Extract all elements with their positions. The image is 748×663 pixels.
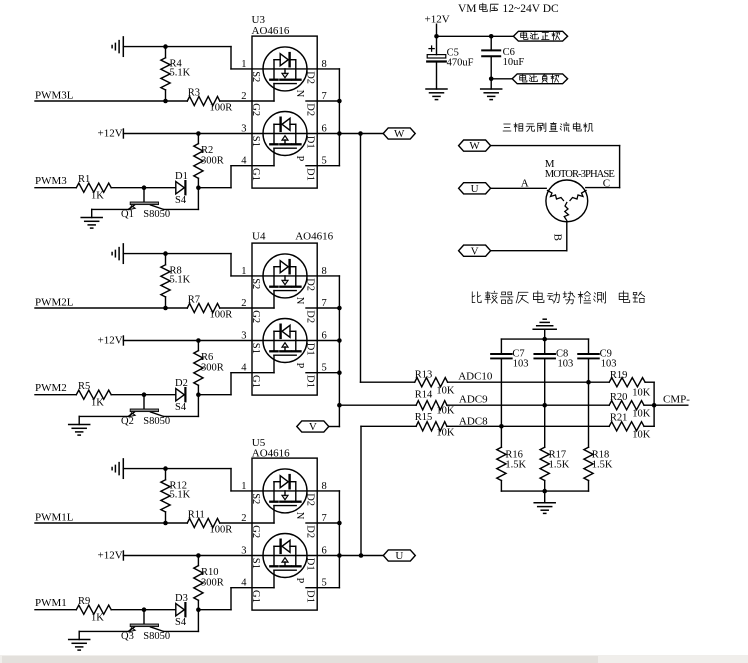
- wire drain tie U4 / V bus: [338, 276, 340, 427]
- svg-text:W: W: [469, 140, 480, 152]
- wire collector: [164, 188, 199, 210]
- wire pin2 row (gate): [252, 506, 274, 523]
- label R12 value: [170, 481, 191, 501]
- wire drain tie U5: [338, 491, 340, 588]
- svg-text:D2: D2: [304, 278, 315, 291]
- ground (top, inverted): [533, 319, 556, 339]
- node U flag (motor): [459, 183, 491, 195]
- svg-text:300R: 300R: [201, 363, 224, 374]
- pin numbers left: [241, 59, 247, 167]
- wire node ADC9: [447, 404, 609, 406]
- svg-text:D1: D1: [304, 590, 315, 603]
- svg-text:G2: G2: [250, 525, 261, 538]
- wire to V flag: [329, 426, 339, 428]
- wire pin1 row: [252, 275, 317, 277]
- resistor R8: [161, 254, 170, 308]
- svg-text:D2: D2: [304, 525, 315, 538]
- ground (rotated) block 2: [112, 244, 123, 263]
- label R13 10K: [415, 370, 455, 397]
- wire to battery negative: [491, 78, 512, 80]
- svg-text:3: 3: [241, 546, 246, 557]
- svg-text:Q3: Q3: [121, 631, 134, 642]
- junction: [196, 553, 201, 558]
- wire PWM2L: [35, 307, 187, 309]
- junction: [196, 392, 201, 397]
- wire pin7 stub: [306, 522, 317, 524]
- junction: [163, 44, 168, 49]
- capacitor C5 470uF: [427, 46, 446, 89]
- svg-text:C: C: [603, 178, 610, 190]
- wire W bus to R13: [361, 381, 415, 383]
- label R20 10K: [610, 392, 651, 420]
- svg-text:3: 3: [241, 124, 246, 135]
- pin numbers left: [241, 266, 247, 374]
- resistor R9: [76, 605, 176, 614]
- wire pin6 out stub: [317, 555, 339, 557]
- resistor R19 10K: [609, 378, 654, 387]
- svg-text:1.5K: 1.5K: [592, 460, 613, 471]
- transistor P-MOSFET of U4: [263, 319, 307, 363]
- wire collector: [164, 395, 199, 417]
- svg-text:S1: S1: [250, 558, 261, 569]
- svg-text:D2: D2: [175, 378, 188, 389]
- wire drain tie U3: [338, 69, 340, 166]
- svg-text:S1: S1: [250, 343, 261, 354]
- wire collector: [164, 610, 199, 632]
- svg-text:+12V: +12V: [98, 334, 123, 346]
- wire pin7 out stub: [317, 522, 339, 524]
- wire +12V to pin 3: [123, 551, 252, 560]
- pin numbers right: [322, 266, 327, 374]
- label Q3 S8050: [121, 631, 170, 642]
- op-amp U3 AO4616 (dual MOSFET): [252, 36, 317, 188]
- pin names D2 D2 D1 D1: [304, 71, 315, 181]
- label D2 value: [175, 378, 188, 413]
- wire CMP- rail: [654, 382, 688, 426]
- label R17 1.5K: [549, 450, 570, 471]
- wire PWM1L: [35, 522, 187, 524]
- svg-text:ADC8: ADC8: [459, 415, 488, 427]
- wire pin3 row: [252, 340, 317, 342]
- svg-text:PWM3: PWM3: [35, 175, 67, 187]
- svg-text:U: U: [471, 183, 479, 195]
- ground (bottom): [534, 491, 555, 513]
- svg-text:100R: 100R: [210, 310, 233, 321]
- junction: [434, 34, 439, 39]
- svg-text:D3: D3: [175, 593, 188, 604]
- svg-text:N: N: [294, 512, 305, 520]
- svg-text:D1: D1: [304, 375, 315, 388]
- wire pin5 out stub: [317, 372, 339, 374]
- wire pin7 stub: [306, 100, 317, 102]
- label R19 10K: [610, 370, 651, 399]
- svg-text:5.1K: 5.1K: [170, 489, 191, 500]
- svg-text:1K: 1K: [91, 612, 104, 623]
- wire PWM1: [35, 609, 76, 611]
- svg-text:A: A: [521, 178, 529, 190]
- junction: [337, 370, 342, 375]
- label R21 10K: [610, 413, 651, 441]
- svg-text:G2: G2: [250, 103, 261, 116]
- op-amp U5 AO4616 (dual MOSFET): [252, 458, 317, 610]
- wire V bus to R14: [339, 404, 416, 406]
- junction: [489, 34, 494, 39]
- wire pin8 stub: [317, 68, 339, 70]
- svg-text:S1: S1: [250, 136, 261, 147]
- wire pin1 row: [252, 490, 317, 492]
- title 3-phase brushless DC motor: [503, 122, 593, 131]
- svg-text:P: P: [294, 156, 305, 162]
- svg-text:AO4616: AO4616: [252, 25, 290, 37]
- wire pin7 out stub: [317, 100, 339, 102]
- resistor R14 10K: [416, 401, 447, 410]
- label D3 value: [175, 593, 188, 628]
- label R2 value: [201, 145, 224, 167]
- label U5 AO4616: [252, 437, 290, 459]
- wire pin5 out stub: [317, 587, 339, 589]
- svg-text:103: 103: [513, 359, 529, 370]
- svg-text:P: P: [294, 363, 305, 369]
- junction: [142, 607, 147, 612]
- pin names S2 G2 S1 G1: [250, 71, 261, 181]
- wire pin4 row (gate): [252, 148, 274, 166]
- svg-text:G1: G1: [250, 590, 261, 603]
- diode D1 S4: [176, 181, 186, 194]
- svg-text:G1: G1: [250, 375, 261, 388]
- svg-text:D1: D1: [304, 558, 315, 571]
- wire top rail: [501, 338, 588, 340]
- junction: [542, 489, 547, 494]
- wire pin1 row: [252, 68, 317, 70]
- svg-text:R10: R10: [201, 567, 219, 578]
- title VM voltage 12~24V DC: [458, 3, 559, 15]
- pin names S2 G2 S1 G1: [250, 493, 261, 603]
- svg-text:1K: 1K: [91, 397, 104, 408]
- svg-text:Q1: Q1: [121, 209, 134, 220]
- junction: [542, 337, 547, 342]
- capacitor C6 10uF: [482, 36, 500, 89]
- label R9 value: [78, 596, 104, 623]
- junction: [337, 521, 342, 526]
- junction: [652, 403, 657, 408]
- ground (C5): [426, 89, 447, 100]
- svg-text:1K: 1K: [91, 190, 104, 201]
- junction: [196, 607, 201, 612]
- svg-text:R11: R11: [188, 510, 205, 521]
- wire pin7 stub: [306, 307, 317, 309]
- svg-text:PWM2: PWM2: [35, 382, 67, 394]
- resistor R17 1.5K: [540, 447, 549, 491]
- node U flag: [383, 550, 415, 562]
- label R10 value: [201, 567, 224, 589]
- svg-text:S8050: S8050: [143, 631, 170, 642]
- svg-text:1: 1: [241, 59, 246, 70]
- ground (rotated) block 1: [112, 459, 123, 478]
- svg-text:10K: 10K: [632, 388, 651, 399]
- node V flag: [297, 421, 329, 433]
- svg-text:S2: S2: [250, 71, 261, 82]
- pin numbers right: [322, 59, 327, 167]
- svg-text:G2: G2: [250, 310, 261, 323]
- svg-text:S4: S4: [175, 617, 187, 628]
- svg-text:100R: 100R: [210, 525, 233, 536]
- wire +12V to pin 3: [123, 336, 252, 345]
- resistor R20 10K: [609, 401, 654, 410]
- wire W output: [339, 133, 383, 135]
- label C8 103: [556, 348, 573, 369]
- junction: [142, 392, 147, 397]
- svg-text:PWM2L: PWM2L: [35, 296, 74, 308]
- label R8 value: [170, 266, 191, 286]
- junction: [163, 99, 168, 104]
- ground block 1: [69, 640, 90, 651]
- svg-text:G1: G1: [250, 168, 261, 181]
- svg-text:10K: 10K: [436, 386, 455, 397]
- pin names D2 D2 D1 D1: [304, 278, 315, 388]
- resistor R15 10K: [416, 422, 447, 431]
- svg-text:AO4616: AO4616: [295, 231, 333, 243]
- wire gnd to pin 1: [123, 254, 252, 276]
- resistor R16 1.5K: [497, 447, 506, 491]
- label D1 value: [175, 171, 188, 206]
- transistor N-MOSFET of U3: [263, 47, 307, 91]
- label C9 103: [600, 348, 617, 369]
- svg-text:ADC9: ADC9: [459, 394, 488, 406]
- labels N P: [294, 90, 305, 162]
- svg-text:S2: S2: [250, 278, 261, 289]
- svg-text:5.1K: 5.1K: [170, 67, 191, 78]
- svg-text:R7: R7: [188, 295, 200, 306]
- junction: [163, 466, 168, 471]
- label R11 value: [188, 510, 233, 536]
- diode D2 S4: [176, 388, 186, 401]
- svg-text:2: 2: [241, 513, 246, 524]
- label U3 AO4616: [252, 14, 290, 37]
- scrollbar thumb: [2, 656, 598, 663]
- svg-text:R14: R14: [415, 389, 433, 400]
- junction: [337, 99, 342, 104]
- junction: [163, 251, 168, 256]
- pin numbers right: [322, 481, 327, 589]
- junction node W: [358, 131, 363, 136]
- node V flag (motor): [459, 245, 491, 257]
- svg-text:P: P: [294, 578, 305, 584]
- wire U bus to R15: [361, 425, 416, 427]
- svg-text:10uF: 10uF: [503, 57, 525, 68]
- svg-text:U4: U4: [252, 231, 266, 243]
- svg-text:1.5K: 1.5K: [549, 460, 570, 471]
- svg-text:PWM1: PWM1: [35, 597, 67, 609]
- wire W to motor C: [491, 146, 620, 188]
- junction: [499, 424, 504, 429]
- svg-text:R3: R3: [188, 88, 200, 99]
- svg-text:S4: S4: [175, 195, 187, 206]
- wire emitter to ground: [79, 631, 128, 639]
- ground (rotated) block 3: [112, 37, 123, 56]
- svg-text:R13: R13: [415, 370, 433, 381]
- junction: [586, 380, 591, 385]
- junction node U: [359, 553, 364, 558]
- svg-text:10K: 10K: [632, 430, 651, 441]
- svg-text:3: 3: [241, 331, 246, 342]
- svg-text:S2: S2: [250, 493, 261, 504]
- wire PWM3L: [35, 100, 187, 102]
- svg-text:2: 2: [241, 91, 246, 102]
- svg-text:R5: R5: [78, 381, 90, 392]
- svg-text:470uF: 470uF: [447, 57, 474, 68]
- junction: [337, 131, 342, 136]
- wire node ADC10: [448, 381, 610, 383]
- resistor R7: [187, 303, 252, 312]
- wire pin8 stub: [317, 490, 339, 492]
- resistor R13 10K: [415, 378, 448, 387]
- wire pin4 row (gate): [252, 355, 274, 373]
- wire gnd to pin 1: [123, 47, 252, 69]
- title comparator back-EMF detection circuit: [472, 291, 644, 304]
- svg-text:R9: R9: [78, 596, 90, 607]
- svg-text:10K: 10K: [436, 406, 455, 417]
- svg-text:1.5K: 1.5K: [505, 460, 526, 471]
- junction: [196, 131, 201, 136]
- resistor R4: [161, 47, 170, 101]
- svg-text:103: 103: [601, 359, 617, 370]
- labels N P: [294, 512, 305, 584]
- transistor P-MOSFET of U5: [263, 534, 307, 578]
- resistor R10: [194, 556, 203, 610]
- junction: [337, 403, 342, 408]
- svg-text:N: N: [294, 297, 305, 305]
- labels N P: [294, 297, 305, 369]
- svg-text:+12V: +12V: [98, 549, 123, 561]
- svg-text:VM: VM: [458, 3, 477, 15]
- svg-text:1: 1: [241, 481, 246, 492]
- svg-text:R21: R21: [610, 413, 628, 424]
- svg-text:W: W: [394, 128, 405, 140]
- wire motor B to V: [491, 222, 567, 251]
- svg-text:U: U: [395, 550, 403, 562]
- wire U bus up: [360, 426, 362, 555]
- svg-text:+12V: +12V: [98, 127, 123, 139]
- junction: [337, 306, 342, 311]
- svg-text:AO4616: AO4616: [252, 447, 290, 459]
- svg-text:S4: S4: [175, 402, 187, 413]
- transistor Q1 S8050: [128, 188, 163, 210]
- svg-text:D1: D1: [304, 136, 315, 149]
- transistor P-MOSFET of U3: [263, 112, 307, 156]
- label R16 1.5K: [505, 450, 526, 471]
- svg-text:B: B: [551, 234, 563, 241]
- wire pin4 row (gate): [252, 570, 274, 588]
- resistor R11: [187, 518, 252, 527]
- svg-text:ADC10: ADC10: [458, 371, 493, 383]
- resistor R3: [187, 96, 252, 105]
- svg-text:D1: D1: [304, 168, 315, 181]
- wire to pin 4: [198, 588, 252, 610]
- wire pin3 row: [252, 555, 317, 557]
- junction: [489, 77, 494, 82]
- wire to pin 4: [198, 166, 252, 188]
- svg-text:10K: 10K: [436, 427, 455, 438]
- wire positive rail: [437, 35, 514, 37]
- pin numbers left: [241, 481, 247, 589]
- wire pin7 out stub: [317, 307, 339, 309]
- svg-text:4: 4: [241, 156, 247, 167]
- motor M (3-phase): [546, 180, 588, 222]
- svg-text:S8050: S8050: [143, 416, 170, 427]
- pin names D2 D2 D1 D1: [304, 493, 315, 603]
- svg-text:D2: D2: [304, 493, 315, 506]
- transistor Q2 S8050: [128, 395, 163, 417]
- wire W bus down: [360, 134, 362, 383]
- label R14 10K: [415, 389, 455, 416]
- wire U to motor A: [491, 187, 547, 189]
- svg-text:D2: D2: [304, 310, 315, 323]
- wire bottom rail: [501, 490, 588, 492]
- label R6 value: [201, 352, 224, 374]
- wire pin5 stub: [306, 587, 317, 589]
- scrollbar track: [0, 655, 748, 663]
- wire pin2 row (gate): [252, 84, 274, 101]
- wire pin6 out stub: [317, 133, 339, 135]
- label C6 10uF: [503, 47, 525, 68]
- wire pin8 stub: [317, 275, 339, 277]
- svg-text:5.1K: 5.1K: [170, 274, 191, 285]
- svg-text:D2: D2: [304, 103, 315, 116]
- node battery positive flag: [513, 31, 567, 41]
- svg-text:Q2: Q2: [121, 416, 134, 427]
- label Q2 S8050: [121, 416, 170, 427]
- wire pin6 out stub: [317, 340, 339, 342]
- op-amp U4 AO4616 (dual MOSFET): [252, 243, 317, 395]
- wire pin5 stub: [306, 165, 317, 167]
- junction: [337, 553, 342, 558]
- svg-text:R15: R15: [415, 412, 433, 423]
- capacitor C7 103: [491, 339, 512, 447]
- svg-text:CMP-: CMP-: [663, 394, 690, 406]
- node W flag: [383, 128, 415, 140]
- label U4 AO4616: [252, 231, 334, 243]
- junction: [196, 338, 201, 343]
- resistor R1: [76, 183, 176, 192]
- label R7 value: [188, 295, 233, 321]
- label Q1 S8050: [121, 209, 170, 220]
- svg-text:12~24V DC: 12~24V DC: [503, 3, 559, 15]
- svg-text:4: 4: [241, 578, 247, 589]
- svg-text:10K: 10K: [632, 409, 651, 420]
- capacitor C8 103: [534, 339, 555, 447]
- wire emitter to ground: [92, 209, 129, 217]
- junction: [196, 185, 201, 190]
- ground (C6): [481, 89, 502, 100]
- svg-text:R20: R20: [610, 392, 628, 403]
- wire PWM2: [35, 394, 76, 396]
- pin names S2 G2 S1 G1: [250, 278, 261, 388]
- transistor N-MOSFET of U5: [263, 469, 307, 513]
- ground block 3: [81, 218, 102, 229]
- label C5 470uF: [447, 47, 474, 68]
- svg-text:V: V: [309, 421, 317, 433]
- ground block 2: [69, 425, 90, 436]
- wire gnd to pin 1: [123, 469, 252, 491]
- label R15 10K: [415, 412, 455, 439]
- resistor R2: [194, 134, 203, 188]
- junction: [142, 185, 147, 190]
- svg-text:V: V: [471, 245, 479, 257]
- wire pin5 stub: [306, 372, 317, 374]
- svg-text:PWM3L: PWM3L: [35, 89, 74, 101]
- label R5 value: [78, 381, 104, 408]
- resistor R21 10K: [609, 422, 654, 431]
